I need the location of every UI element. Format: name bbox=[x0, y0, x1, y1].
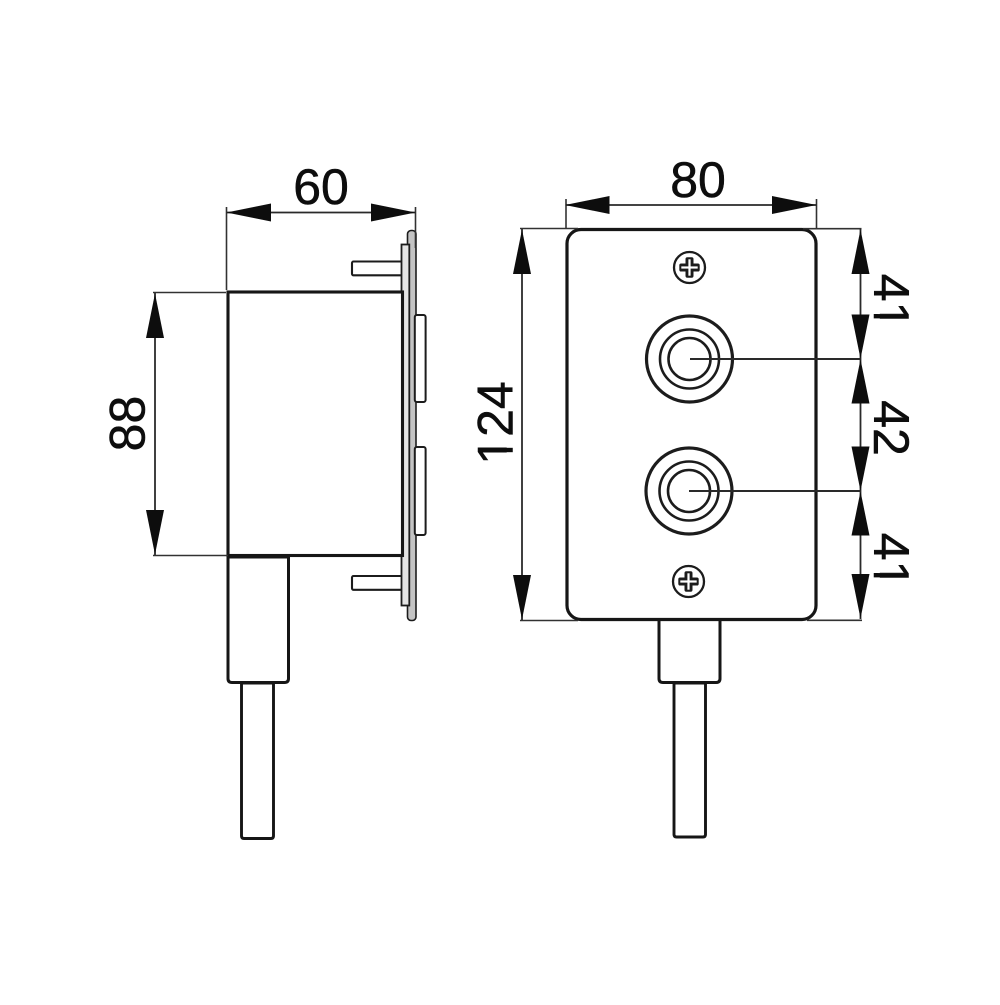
button 2 (side) bbox=[415, 447, 426, 535]
dim 88: bottom arrow bbox=[146, 510, 164, 555]
center line button 1 bbox=[690, 358, 861, 360]
right dims: dimension line bbox=[860, 229, 862, 619]
center line button 2 bbox=[689, 490, 861, 492]
right dims: arrow down to line 2 bbox=[852, 447, 870, 492]
button 1 (front) outer ring bbox=[647, 316, 733, 402]
cable gland (front) bbox=[659, 618, 720, 683]
button 2 (front) outer ring bbox=[646, 448, 732, 534]
screw top bbox=[674, 252, 705, 283]
dim 60: left arrow bbox=[227, 204, 272, 222]
dim 88: top extension line bbox=[153, 292, 226, 294]
button 1 (side) bbox=[415, 315, 426, 402]
dim 88: bottom extension line bbox=[153, 555, 228, 557]
right dims: arrow up from line 2 bbox=[852, 491, 870, 535]
dim 80: right extension line bbox=[816, 199, 818, 228]
dim 124: dimension line bbox=[521, 229, 523, 620]
front panel bbox=[567, 230, 816, 620]
svg-text:41: 41 bbox=[863, 533, 919, 589]
right dims: arrow up from line 1 bbox=[852, 359, 870, 403]
label 41 top bbox=[863, 274, 919, 330]
dim 60: right arrow bbox=[371, 204, 416, 222]
dim 60: right extension line bbox=[415, 207, 417, 248]
button 2 middle ring bbox=[660, 462, 719, 521]
dim 88: dimension line bbox=[154, 293, 156, 555]
dim 80: left arrow bbox=[565, 196, 610, 214]
button 1 inner ring bbox=[669, 338, 711, 380]
label 41 bottom bbox=[863, 533, 919, 589]
dim 124: top arrow bbox=[513, 230, 531, 275]
cable (side) bbox=[242, 683, 274, 839]
faceplate (side) bbox=[402, 245, 410, 606]
dim 60: dimension line bbox=[227, 212, 416, 214]
right dims: top extension line bbox=[803, 228, 862, 230]
svg-text:88: 88 bbox=[100, 396, 156, 452]
dim 80: left extension line bbox=[565, 199, 567, 228]
dim 124: bottom arrow bbox=[513, 575, 531, 620]
dim 124: top extension line bbox=[520, 228, 578, 230]
right dims: arrow down to line 1 bbox=[852, 315, 870, 359]
right dims: arrow down at bottom bbox=[852, 574, 870, 619]
button 2 inner ring bbox=[668, 470, 710, 512]
cable (front) bbox=[674, 683, 706, 837]
svg-text:42: 42 bbox=[863, 400, 919, 456]
right dims: bottom extension line bbox=[807, 619, 862, 621]
dim 80: right arrow bbox=[772, 196, 817, 214]
button 1 middle ring bbox=[660, 330, 719, 389]
dim 88: top arrow bbox=[146, 294, 164, 339]
svg-text:60: 60 bbox=[293, 159, 349, 215]
dim 60: left extension line bbox=[226, 207, 228, 290]
svg-text:41: 41 bbox=[863, 274, 919, 330]
top mounting tab (side) bbox=[352, 262, 403, 276]
gasket (rear strip of faceplate, pokes out top and bottom) bbox=[408, 231, 417, 621]
dim 80: dimension line bbox=[566, 204, 817, 206]
bottom mounting tab (side) bbox=[352, 576, 403, 590]
box body (side) bbox=[228, 292, 403, 556]
dim 124: bottom extension line bbox=[520, 620, 578, 622]
right dims: arrow up at top bbox=[852, 230, 870, 275]
svg-text:80: 80 bbox=[670, 152, 726, 208]
dim 124: label bbox=[468, 381, 524, 464]
cable gland (side) bbox=[228, 557, 289, 683]
screw bottom bbox=[673, 566, 704, 597]
svg-text:124: 124 bbox=[468, 381, 524, 464]
